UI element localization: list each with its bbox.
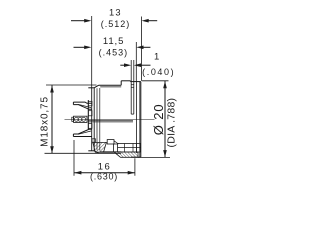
svg-text:(.453): (.453): [99, 48, 129, 58]
dimension 16 text: [90, 161, 118, 181]
dimension 11,5 right arrow: [136, 46, 150, 50]
extension line right 11,5: [135, 42, 137, 82]
svg-text:(.040): (.040): [142, 67, 175, 77]
svg-text:(.512): (.512): [101, 19, 131, 29]
panel section rungs: [131, 85, 134, 88]
svg-text:13: 13: [109, 8, 122, 18]
dimension 11,5 text: [99, 36, 129, 58]
thread barrel bottom: [94, 151, 121, 154]
front face outer: [140, 82, 142, 158]
svg-text:(DIA .788): (DIA .788): [166, 98, 178, 148]
thread barrel top: [94, 85, 121, 150]
M18 top extension line: [46, 84, 97, 86]
front face inner: [139, 82, 141, 158]
dimension D20 line and arrows: [163, 81, 167, 157]
lower hatched block: [114, 152, 138, 157]
extension line right 13: [141, 17, 143, 81]
dimension 16 line and arrows: [74, 171, 135, 175]
dimension 13 right arrow: [142, 19, 158, 23]
terminal slot box lower: [88, 111, 92, 116]
svg-text:11,5: 11,5: [103, 36, 124, 47]
mid plain step: [104, 144, 118, 152]
extension line left (13 and 11,5 datum): [91, 16, 93, 88]
terminal slot box lower2: [88, 124, 92, 129]
extension line 1 left / panel front face: [130, 60, 132, 114]
shoulder step: [121, 81, 130, 86]
section hatch wedge under barrel: [92, 139, 119, 152]
raised key block: [107, 140, 114, 144]
dimension 13 text: [101, 8, 131, 29]
svg-text:1: 1: [154, 51, 159, 62]
flange inner line: [135, 82, 137, 153]
insulator seam lines: [88, 120, 133, 122]
D20 bottom extension line: [138, 156, 170, 158]
extension line 1 right / panel rear face: [133, 60, 135, 114]
dimension 1 text: [142, 51, 175, 77]
dimension 1 right arrow: [134, 63, 151, 67]
rear face outline: [88, 88, 94, 151]
M18 bottom extension line: [45, 152, 122, 154]
dimension 1 left arrow: [120, 63, 131, 67]
foot band blocks: [118, 144, 141, 153]
dimension M18 line and arrows: [50, 85, 54, 153]
solder terminal bottom: [73, 129, 91, 136]
svg-text:M18x0,75: M18x0,75: [40, 96, 51, 147]
terminal slot box upper: [88, 101, 92, 106]
flange bottom edge: [131, 156, 141, 158]
dimension 11,5 left arrow: [74, 46, 92, 50]
dimension 13 left arrow: [71, 19, 91, 23]
16 left extension line: [73, 140, 75, 176]
centerline axis: [65, 118, 155, 120]
contact middle (sectioned): [72, 116, 87, 122]
16 right extension line: [134, 158, 136, 176]
solder terminal top: [73, 102, 91, 109]
D20 top extension line: [142, 80, 169, 82]
flange top edge: [130, 81, 140, 83]
